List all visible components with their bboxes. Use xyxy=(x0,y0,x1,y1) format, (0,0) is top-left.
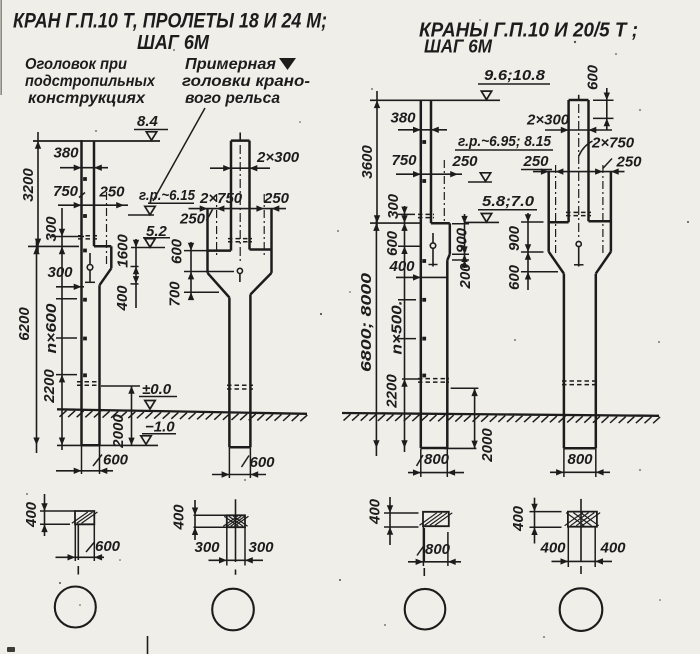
svg-text:300: 300 xyxy=(194,539,220,556)
base extension right K1 xyxy=(100,444,159,446)
column K1 corbel top xyxy=(94,245,111,248)
svg-text:600: 600 xyxy=(103,452,129,469)
column K2 upper left edge xyxy=(230,141,233,251)
svg-text:2200: 2200 xyxy=(41,369,58,404)
svg-text:КРАН Г.П.10 Т, ПРОЛЕТЫ 18 И 24: КРАН Г.П.10 Т, ПРОЛЕТЫ 18 И 24 М; xyxy=(13,9,327,33)
svg-text:250: 250 xyxy=(451,153,478,170)
svg-text:Примерная: Примерная xyxy=(185,56,276,73)
svg-text:6800; 8000: 6800; 8000 xyxy=(358,272,375,372)
column K4 crane-beam level dashes xyxy=(566,211,591,213)
column K1 crane-beam level dashes xyxy=(78,235,97,237)
svg-text:6200: 6200 xyxy=(16,307,33,341)
svg-text:750: 750 xyxy=(53,183,79,200)
svg-text:головки крано-: головки крано- xyxy=(182,73,310,90)
svg-text:600: 600 xyxy=(506,264,523,290)
column K2 top cap xyxy=(231,139,250,142)
column K4 right taper xyxy=(596,252,611,274)
column K1 left edge xyxy=(80,140,83,445)
svg-text:600: 600 xyxy=(384,230,401,256)
svg-text:800: 800 xyxy=(567,451,593,468)
column K1 corbel right edge xyxy=(110,246,113,268)
scan speck bottom left corner xyxy=(7,647,15,652)
column K2 crane-beam level dashes xyxy=(228,238,252,240)
column K2 center axis dash-dot xyxy=(239,145,241,264)
extension line corbel level K3 xyxy=(370,222,421,224)
svg-text:г.р.~6.15: г.р.~6.15 xyxy=(139,187,196,204)
column K3 anchor marks xyxy=(422,140,426,144)
svg-text:600: 600 xyxy=(169,238,186,264)
dim 1600 xyxy=(135,239,137,308)
column K3 zero-level dashes xyxy=(418,378,449,380)
column K1 upper right edge xyxy=(93,141,96,246)
dim 6800 8000 xyxy=(375,216,377,456)
column K4 outer right edge xyxy=(610,172,613,252)
svg-text:2×300: 2×300 xyxy=(256,149,300,166)
column K3 small taper xyxy=(447,254,450,260)
svg-text:вого рельса: вого рельса xyxy=(185,90,280,107)
dim 2000 K3 xyxy=(451,387,479,389)
svg-text:250: 250 xyxy=(522,153,549,170)
column K3 top cap line with extensions xyxy=(370,99,500,101)
column K3 base line xyxy=(421,447,448,450)
svg-text:n×500.: n×500. xyxy=(389,301,406,355)
inner dim line K1 with 300 n x 600 2200 xyxy=(61,208,63,450)
mark filled triangle after primernaya xyxy=(279,58,296,70)
foundation circle S4 xyxy=(560,588,603,631)
dim 600 top right K4 xyxy=(593,99,614,101)
section S2 rect with hatching xyxy=(227,515,245,527)
svg-text:9.6;10.8: 9.6;10.8 xyxy=(484,67,546,84)
dim 6200 xyxy=(36,240,38,453)
svg-text:300: 300 xyxy=(43,216,60,242)
column K4 top cap xyxy=(569,99,589,102)
column K4 rail axes dash-dot xyxy=(555,165,557,255)
main dim line K2 rail spacing xyxy=(189,208,287,210)
svg-text:400: 400 xyxy=(367,498,384,525)
column K4 notch right xyxy=(589,220,611,223)
column K4 outer left edge xyxy=(547,172,550,252)
svg-text:8.4: 8.4 xyxy=(137,113,159,130)
column K4 notch left xyxy=(549,221,569,224)
column K1 crane rail axis dash-dot xyxy=(106,192,108,266)
column K4 zero-level dashes xyxy=(562,380,597,382)
svg-text:конструкциях: конструкциях xyxy=(28,90,146,107)
extension line corbel level left xyxy=(28,245,79,247)
column K3 crane-beam level dashes xyxy=(418,213,434,215)
svg-text:250: 250 xyxy=(615,154,642,171)
svg-text:2×750: 2×750 xyxy=(199,190,243,207)
column K3 corbel right edge xyxy=(449,223,452,254)
svg-text:600: 600 xyxy=(585,64,602,90)
main dim line K4 rail spacing xyxy=(533,171,625,173)
svg-text:400: 400 xyxy=(388,258,415,275)
svg-text:700: 700 xyxy=(167,281,184,307)
column K1 taper xyxy=(100,268,112,285)
section S1 axis xyxy=(77,524,79,560)
leader line from label to rail level xyxy=(153,108,205,201)
inner dim line K3 with 300 600 n x 500 2200 xyxy=(404,206,406,452)
dim 3600 xyxy=(376,91,378,230)
dim 600 / 700 K2 left xyxy=(190,242,192,300)
column K3 crane rail axis dash-dot xyxy=(443,160,445,223)
dim 800 base K3 xyxy=(420,448,422,477)
svg-text:ШАГ 6М: ШАГ 6М xyxy=(424,36,493,57)
svg-text:400: 400 xyxy=(539,540,566,557)
section S2 axis xyxy=(235,499,237,562)
foundation circle S1 xyxy=(55,587,96,628)
foundation circle S2 xyxy=(212,589,254,631)
dim 900 / 600 K4 left xyxy=(527,213,529,290)
section S3 rect with hatching xyxy=(423,512,449,526)
column K2 shaft left edge xyxy=(228,298,231,448)
svg-text:300: 300 xyxy=(47,264,73,281)
svg-text:2000: 2000 xyxy=(110,414,127,449)
column K3 corbel top xyxy=(431,222,450,225)
column K3 lower right edge xyxy=(446,260,449,448)
svg-text:3200: 3200 xyxy=(20,168,37,202)
svg-text:3600: 3600 xyxy=(359,145,376,179)
dim 600 base K1 xyxy=(81,445,83,474)
column K2 outer left edge xyxy=(206,209,209,273)
svg-text:−1.0: −1.0 xyxy=(145,419,175,436)
column K2 upper right edge xyxy=(248,141,251,250)
column K4 upper right edge xyxy=(587,100,590,221)
svg-text:±0.0: ±0.0 xyxy=(142,381,172,398)
column K2 notch left xyxy=(208,249,232,252)
ground line right with hatching xyxy=(342,413,659,416)
column K1 top cap line with extensions xyxy=(33,140,160,142)
svg-text:5.8;7.0: 5.8;7.0 xyxy=(482,193,535,210)
section S3 axis xyxy=(423,528,425,562)
svg-text:n×600: n×600 xyxy=(43,303,60,354)
svg-text:250: 250 xyxy=(263,190,290,207)
column K2 hinge symbol xyxy=(237,268,242,273)
svg-text:Оголовок при: Оголовок при xyxy=(25,56,128,73)
svg-text:300: 300 xyxy=(385,193,402,219)
column K1 anchor marks xyxy=(83,177,87,181)
dim 3200 xyxy=(37,132,39,252)
column K4 axis tick above cap xyxy=(578,95,580,100)
column K4 upper left edge xyxy=(567,100,570,222)
column K2 rail axes dash-dot xyxy=(216,194,218,258)
column K2 left taper xyxy=(208,273,230,298)
column K3 hinge symbol xyxy=(432,233,434,243)
svg-text:380: 380 xyxy=(53,145,79,162)
svg-text:200: 200 xyxy=(457,263,474,290)
column K2 axis tick above cap xyxy=(239,133,241,141)
svg-text:2×750: 2×750 xyxy=(591,135,635,152)
column K2 notch right xyxy=(250,248,272,251)
svg-text:400: 400 xyxy=(599,540,626,557)
svg-text:300: 300 xyxy=(248,539,274,556)
column K4 hinge symbol xyxy=(576,241,581,246)
column K1 lower right edge xyxy=(98,285,101,445)
column K3 left edge xyxy=(420,100,423,449)
svg-text:г.р.~6.95; 8.15: г.р.~6.95; 8.15 xyxy=(458,133,552,150)
svg-text:750: 750 xyxy=(391,152,417,169)
svg-text:250: 250 xyxy=(98,184,125,201)
column K1 zero-level dashes xyxy=(77,381,99,383)
svg-text:600: 600 xyxy=(95,538,121,555)
section S1 rect with hatching xyxy=(75,511,94,524)
svg-text:900: 900 xyxy=(454,227,471,253)
column K2 right taper xyxy=(250,273,271,295)
svg-text:800: 800 xyxy=(424,451,450,468)
column K3 upper right edge xyxy=(430,100,433,223)
svg-text:400: 400 xyxy=(23,501,40,528)
section S3 dim 800 xyxy=(422,526,424,566)
dim 400 xyxy=(131,283,139,285)
section S4 rect with hatching xyxy=(568,512,597,527)
section S2 dim 400 xyxy=(194,514,227,516)
scan edge mark left xyxy=(0,0,2,95)
column K2 zero-level dashes xyxy=(227,384,253,386)
dim 900 / 200 K3 right xyxy=(452,223,469,225)
svg-text:2000: 2000 xyxy=(479,428,496,463)
section S1 dim 600 xyxy=(74,524,76,561)
svg-text:380: 380 xyxy=(390,110,416,127)
column K4 shaft right edge xyxy=(595,274,598,449)
svg-text:900: 900 xyxy=(506,225,523,251)
column K1 hinge symbol xyxy=(89,253,91,264)
section S4 axis xyxy=(580,499,582,561)
svg-text:400: 400 xyxy=(114,285,131,312)
column K4 center axis dash-dot xyxy=(578,104,580,240)
column K4 left taper xyxy=(549,252,564,274)
dim 800 base K4 xyxy=(563,448,565,477)
column K4 base line xyxy=(564,447,596,450)
scan specks xyxy=(320,313,322,315)
stray vertical mark bottom left xyxy=(147,636,149,654)
svg-text:800: 800 xyxy=(425,541,451,558)
column K2 shaft right edge xyxy=(249,295,252,448)
column K2 base line xyxy=(229,446,250,449)
svg-text:2200: 2200 xyxy=(384,374,401,409)
ground line left with hatching xyxy=(57,409,307,414)
section S3 dim 400 xyxy=(384,512,419,514)
svg-text:400: 400 xyxy=(171,504,188,531)
column K1 base line xyxy=(82,444,100,447)
svg-text:600: 600 xyxy=(250,454,276,471)
section S1 dim 400 xyxy=(40,510,75,512)
column K2 outer right edge xyxy=(270,209,273,273)
column K4 shaft left edge xyxy=(563,274,566,449)
section S4 dim 400 left xyxy=(530,511,562,513)
dim 2000 K1 xyxy=(101,385,140,387)
svg-text:1600: 1600 xyxy=(115,234,132,268)
base extension K3 xyxy=(444,447,477,449)
svg-text:подстропильных: подстропильных xyxy=(25,73,156,90)
svg-text:250: 250 xyxy=(179,211,206,228)
base extension left K1 xyxy=(57,444,82,446)
foundation circle S3 xyxy=(405,589,446,630)
dim 600 base K2 xyxy=(228,447,230,478)
svg-text:2×300: 2×300 xyxy=(526,112,570,129)
svg-text:400: 400 xyxy=(510,505,527,532)
